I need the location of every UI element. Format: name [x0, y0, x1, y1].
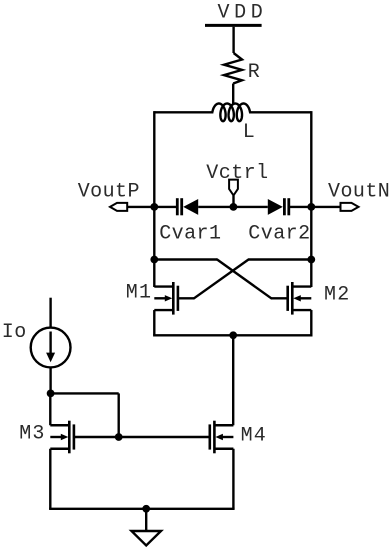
svg-text:M3: M3	[19, 423, 45, 446]
wire Vctrl port stub	[232, 195, 234, 207]
VDD supply bar	[205, 24, 262, 27]
wire cross top-left	[154, 258, 217, 260]
svg-text:R: R	[248, 61, 260, 84]
wire diode-connect vertical	[117, 393, 119, 437]
junction ground	[142, 505, 150, 513]
svg-text:Cvar1: Cvar1	[159, 223, 221, 246]
wire M3 gate to M4 gate	[74, 436, 210, 438]
junction right cross-couple	[307, 256, 315, 264]
wire M2 gate lead	[271, 297, 287, 299]
varactor Cvar2	[268, 198, 289, 215]
wire Cvar1 to Vctrl node	[198, 206, 233, 208]
wire to Cvar1	[154, 206, 177, 208]
port Vctrl	[229, 180, 238, 196]
wire M3 drain down	[49, 393, 51, 425]
wire M1 source down	[153, 310, 155, 335]
wire M3 source down	[49, 449, 51, 509]
junction tail	[229, 331, 237, 339]
svg-text:M4: M4	[241, 425, 267, 448]
wire M4 source down	[232, 449, 234, 509]
top rail left	[154, 111, 213, 113]
wire ground stub	[145, 509, 147, 531]
transistor M2	[288, 282, 312, 315]
svg-text:Cvar2: Cvar2	[248, 223, 310, 246]
junction VoutN node	[307, 203, 315, 211]
wire Io to M3 drain	[49, 367, 51, 393]
ground rail	[49, 508, 235, 510]
tail rail	[153, 334, 312, 336]
wire Io stub	[49, 298, 51, 328]
transistor M4	[210, 421, 234, 454]
svg-text:M1: M1	[126, 281, 152, 304]
wire VoutP	[127, 206, 154, 208]
junction M3 gate node	[115, 433, 123, 441]
wire VDD to resistor	[232, 27, 234, 53]
port VoutN	[341, 203, 359, 211]
wire cross top-right	[249, 258, 312, 260]
svg-text:Io: Io	[2, 321, 27, 344]
wire diode-connect horizontal	[51, 392, 119, 394]
wire Vctrl node to Cvar2	[233, 206, 267, 208]
inductor L	[212, 104, 250, 122]
wire VoutN	[311, 206, 340, 208]
transistor M1	[154, 282, 178, 315]
wire M2 gate to M1 drain	[217, 260, 271, 299]
wire resistor to inductor	[232, 84, 234, 105]
transistor M3	[50, 421, 74, 454]
svg-text:M2: M2	[324, 284, 350, 307]
resistor R	[224, 53, 242, 84]
port VoutP	[110, 203, 127, 211]
wire M1 gate lead	[178, 297, 194, 299]
ground	[132, 531, 162, 546]
wire M2 source down	[310, 310, 312, 335]
junction M3 drain node	[47, 390, 55, 398]
svg-text:VoutN: VoutN	[328, 181, 389, 204]
junction VoutP node	[150, 203, 158, 211]
svg-text:VDD: VDD	[218, 2, 268, 25]
left rail	[153, 111, 155, 287]
current source Io	[31, 328, 71, 368]
wire Cvar2 to VoutN	[289, 206, 312, 208]
junction Vctrl node	[230, 203, 238, 211]
wire M1 gate to M2 drain	[194, 260, 249, 299]
wire tail to M4 drain	[232, 335, 234, 425]
svg-text:VoutP: VoutP	[78, 180, 140, 203]
varactor Cvar1	[177, 198, 198, 215]
junction left cross-couple	[150, 256, 158, 264]
top rail right	[249, 111, 311, 113]
svg-text:L: L	[243, 121, 255, 144]
right rail	[310, 111, 312, 287]
